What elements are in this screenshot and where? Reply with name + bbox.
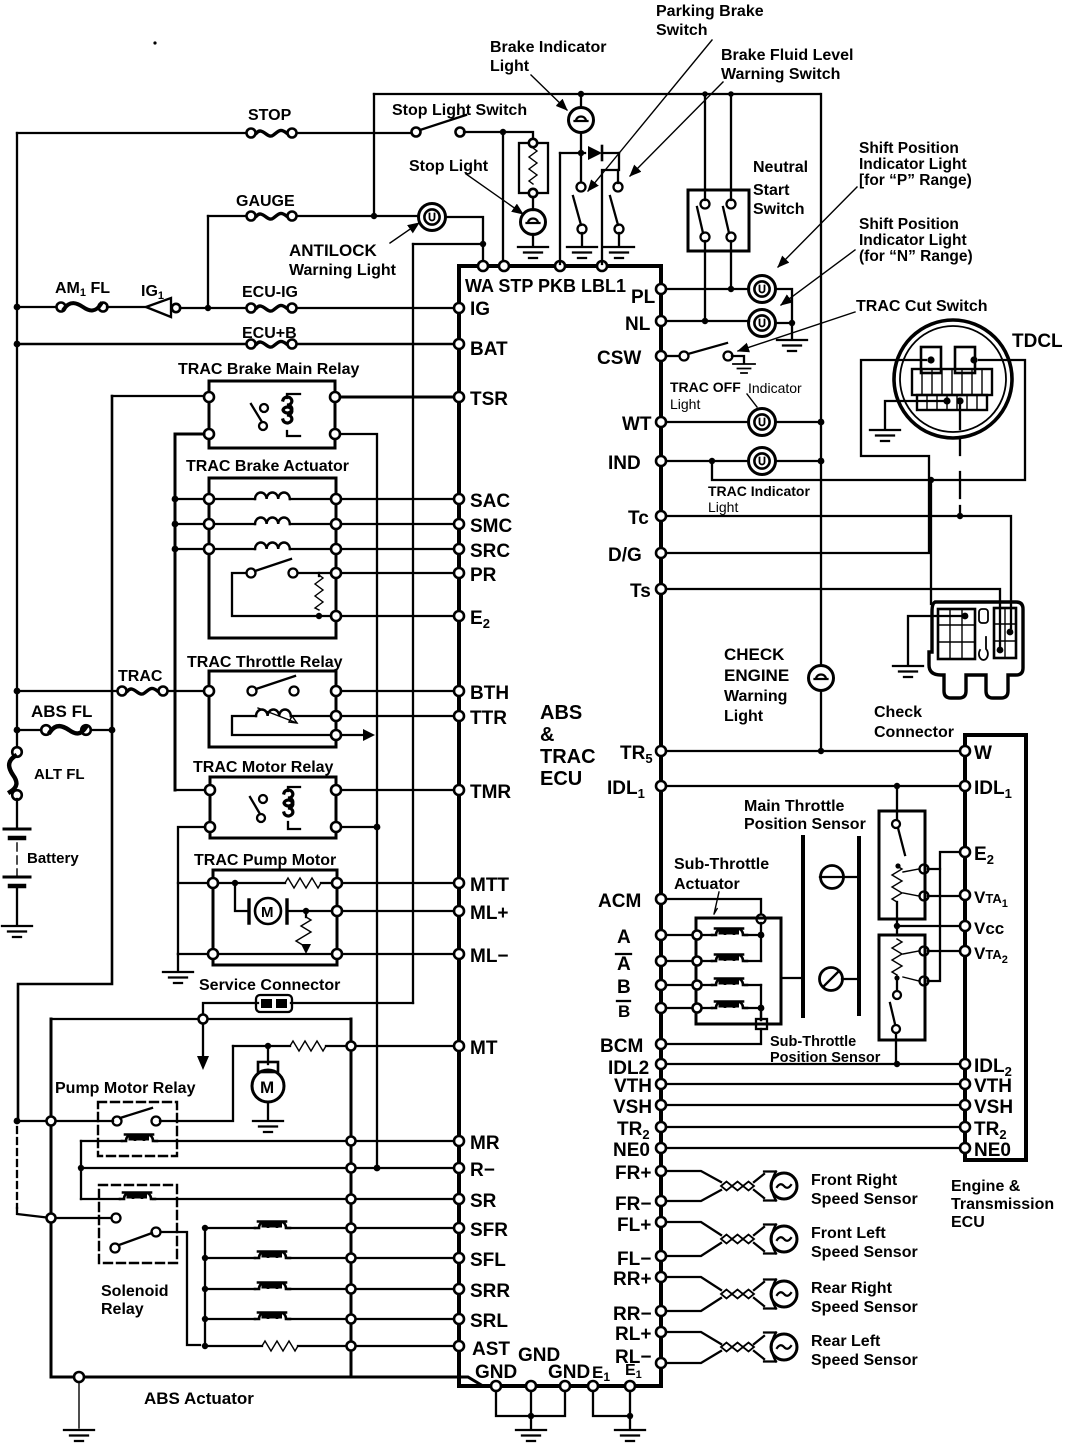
pin IDL1 — [656, 781, 666, 791]
wire: motor leads — [235, 883, 332, 911]
pin BAT — [454, 339, 464, 349]
svg-text:Light: Light — [490, 58, 530, 75]
svg-text:Speed Sensor: Speed Sensor — [811, 1352, 918, 1369]
svg-text:TRAC Pump Motor: TRAC Pump Motor — [194, 852, 336, 869]
svg-text:TRAC Cut Switch: TRAC Cut Switch — [856, 298, 988, 315]
pin Vcc — [960, 921, 970, 931]
svg-text:RL+: RL+ — [615, 1324, 651, 1345]
pin SRC — [454, 544, 464, 554]
pin FL- — [656, 1251, 666, 1261]
pin NE0 — [656, 1143, 666, 1153]
screw: sub idle adjust symbol — [820, 968, 843, 991]
wire: ML- row — [178, 953, 213, 955]
svg-text:Front Right: Front Right — [811, 1172, 898, 1189]
ground: stop light ground — [532, 234, 534, 246]
pin SAC — [454, 494, 464, 504]
wire: IDL1 row — [666, 785, 960, 787]
svg-text:CSW: CSW — [597, 348, 641, 369]
svg-text:M: M — [261, 904, 274, 921]
wire: Vcc row — [896, 919, 898, 935]
node: WA jog junction — [480, 241, 486, 247]
solenoid SRC — [175, 548, 331, 550]
bus: solenoid coil feed bus — [204, 1228, 206, 1346]
wire: TR5 / W row — [666, 750, 960, 752]
svg-text:Speed Sensor: Speed Sensor — [811, 1191, 918, 1208]
svg-text:BCM: BCM — [600, 1036, 643, 1057]
svg-text:CHECK: CHECK — [724, 645, 785, 664]
svg-text:WT: WT — [622, 414, 652, 435]
wire: warning light to WA pin — [446, 217, 483, 264]
wire: STOP circuit feed — [17, 132, 416, 134]
svg-text:NL: NL — [625, 314, 651, 335]
fuse ECU+B — [247, 340, 297, 349]
pin A — [656, 930, 666, 940]
resistor: stop light resistor block — [519, 143, 548, 193]
svg-text:ABS Actuator: ABS Actuator — [144, 1389, 254, 1408]
wire: motor relay output to down-feed — [341, 826, 377, 828]
svg-text:SFL: SFL — [470, 1250, 506, 1271]
pin TSR — [454, 392, 464, 402]
svg-text:ENGINE: ENGINE — [724, 666, 789, 685]
pin NL — [656, 316, 666, 326]
svg-text:Warning: Warning — [724, 688, 787, 705]
pin ACM — [656, 894, 666, 904]
pin TR2 (engine) — [960, 1122, 970, 1132]
wire: WA jog to long vertical — [413, 243, 483, 245]
wire: VTA2 row — [928, 950, 960, 952]
svg-text:FL−: FL− — [617, 1249, 651, 1270]
wire: main relay output down-feed — [340, 434, 377, 1168]
node: gauge drop junction on ECU-IG — [205, 305, 211, 311]
svg-text:IG: IG — [470, 299, 490, 320]
pin VTA1 — [960, 890, 970, 900]
sensor: Main Throttle Position Sensor — [879, 811, 925, 919]
pin TR5 — [656, 746, 666, 756]
sensor: Rear Right Speed Sensor — [666, 1277, 721, 1311]
svg-text:ECU: ECU — [540, 768, 582, 790]
ground: battery ground — [2, 926, 32, 937]
wire: NL row — [666, 320, 749, 322]
svg-text:Warning Switch: Warning Switch — [721, 66, 840, 83]
svg-text:MT: MT — [470, 1038, 498, 1059]
wire: MTT row to ECU — [342, 882, 459, 884]
svg-text:ABS: ABS — [540, 702, 582, 724]
ground: TDCL ground — [885, 401, 947, 428]
svg-text:ECU+B: ECU+B — [242, 325, 297, 342]
svg-text:Relay: Relay — [101, 1301, 144, 1318]
wire: TR2 row — [666, 1126, 960, 1128]
screw: idle adjust symbol — [821, 866, 844, 889]
wire: TRAC feed — [17, 690, 209, 692]
wire: R- row — [81, 1167, 459, 1169]
wire: check connector drop from TDCL loop — [928, 477, 934, 483]
wire: E1 grounding network — [593, 1391, 630, 1416]
lamp: CHECK ENGINE Warning Light — [809, 666, 834, 691]
svg-text:Pump Motor Relay: Pump Motor Relay — [55, 1080, 196, 1097]
wire: TMR row to ECU — [341, 789, 459, 791]
switch: actuator pressure switch PR — [247, 569, 256, 578]
svg-text:ML+: ML+ — [470, 903, 509, 924]
wire: left feed bus from STOP line down to ALT FL — [16, 133, 18, 752]
svg-text:BAT: BAT — [470, 339, 508, 360]
ground: ECU E1 ground — [615, 1430, 645, 1441]
ground: shift lights ground — [777, 340, 807, 351]
wire: VSH row — [666, 1104, 960, 1106]
svg-text:MR: MR — [470, 1133, 500, 1154]
svg-text:NE0: NE0 — [613, 1140, 650, 1161]
svg-text:TRAC Brake Actuator: TRAC Brake Actuator — [186, 458, 349, 475]
ground: parking brake ground — [567, 247, 597, 258]
sensor: Front Left Speed Sensor — [666, 1222, 721, 1256]
svg-text:VSH: VSH — [613, 1097, 652, 1118]
pin RL+ — [656, 1327, 666, 1337]
svg-text:Light: Light — [670, 396, 700, 412]
svg-text:Actuator: Actuator — [674, 876, 740, 893]
solenoid SRR — [202, 1286, 208, 1292]
pin WT — [656, 417, 666, 427]
fuse STOP — [247, 129, 297, 138]
ground: fluid switch ground — [604, 247, 634, 258]
resistor: actuator internal resistor — [315, 575, 323, 610]
svg-text:GAUGE: GAUGE — [236, 193, 295, 210]
svg-text:Light: Light — [724, 708, 764, 725]
pin VSH — [656, 1100, 666, 1110]
pin PL — [656, 284, 666, 294]
wire: PKB drop — [559, 153, 561, 264]
pin IDL2 — [656, 1059, 666, 1069]
ground: pump motor ground — [253, 1121, 283, 1132]
svg-text:GND: GND — [475, 1362, 517, 1383]
svg-text:Switch: Switch — [656, 22, 708, 39]
svg-text:Solenoid: Solenoid — [101, 1283, 169, 1300]
wire: PL row — [666, 288, 749, 290]
pin RR- — [656, 1306, 666, 1316]
switch: IG1 ignition — [107, 306, 146, 308]
pin FR- — [656, 1196, 666, 1206]
svg-text:TSR: TSR — [470, 389, 508, 410]
wire: ECU+B circuit — [14, 341, 21, 348]
lamp: Stop Light — [532, 197, 534, 210]
wire: ML+ row to ECU — [342, 910, 459, 912]
wire: neutral switch to NL row — [704, 241, 706, 321]
wire: E2 jog — [928, 852, 960, 869]
wire: pump relay switch to motor — [160, 1046, 233, 1121]
svg-text:Indicator Light: Indicator Light — [859, 232, 967, 249]
wire: Tc row — [666, 516, 1011, 628]
pin W — [960, 746, 970, 756]
svg-text:PR: PR — [470, 565, 497, 586]
fuse ECU-IG — [247, 304, 297, 313]
pin SR — [454, 1194, 464, 1204]
wire: TDCL Tc pin drop (dashed) — [959, 403, 961, 516]
svg-text:R−: R− — [470, 1160, 495, 1181]
svg-text:ECU-IG: ECU-IG — [242, 284, 298, 301]
pin R- — [454, 1163, 464, 1173]
pin Tc — [656, 511, 666, 521]
pin VTA2 — [960, 946, 970, 956]
resistor: motor shunt resistor — [303, 908, 309, 914]
svg-text:SR: SR — [470, 1191, 497, 1212]
wire: TTR row to ECU — [341, 715, 459, 717]
pin B — [656, 980, 666, 990]
wire: STP drop to ECU — [502, 132, 504, 264]
svg-text:Start: Start — [753, 182, 790, 199]
pin STP — [499, 261, 509, 271]
svg-text:SRC: SRC — [470, 541, 510, 562]
svg-text:TRAC: TRAC — [540, 746, 596, 768]
pin NE0 (engine) — [960, 1143, 970, 1153]
pin E2 — [454, 611, 464, 621]
pin PKB — [555, 261, 565, 271]
svg-text:A: A — [617, 954, 631, 975]
wire: relay coil drop bus — [80, 1141, 82, 1199]
pin RL- — [656, 1358, 666, 1368]
solenoid SMC — [175, 523, 331, 525]
sensor: Sub-Throttle Position Sensor — [879, 935, 925, 1040]
speck — [153, 41, 156, 44]
lamp: ANTILOCK Warning Light — [419, 204, 446, 231]
wire: TSR output to ECU — [340, 396, 459, 399]
svg-text:STOP: STOP — [248, 107, 292, 124]
fuse AM1 FL — [14, 304, 21, 311]
coil A — [666, 934, 712, 936]
wire: ABS FL drop to pump/solenoid relays — [18, 396, 112, 1121]
wire: NE0 row — [666, 1147, 960, 1149]
wire: switch return loop — [232, 573, 331, 616]
svg-text:TRAC Throttle Relay: TRAC Throttle Relay — [187, 654, 343, 671]
pin FR+ — [656, 1166, 666, 1176]
svg-text:Parking Brake: Parking Brake — [656, 3, 764, 20]
sensor: Front Right Speed Sensor — [666, 1171, 721, 1201]
pin LB — [597, 261, 607, 271]
wire: shift lights common ground — [776, 289, 792, 338]
svg-text:ALT FL: ALT FL — [34, 766, 85, 783]
lamp: Shift Position Indicator Light (P) — [749, 276, 776, 303]
wire: GND grounding network — [496, 1391, 565, 1416]
wire: solenoid relay switch feed (dashed drop) — [16, 1127, 18, 1208]
coil: throttle relay coil — [256, 710, 291, 717]
solenoid SFL — [202, 1255, 208, 1261]
node: SMC bus junction — [172, 521, 179, 528]
svg-text:Service Connector: Service Connector — [199, 977, 340, 994]
wire: MT row — [233, 1045, 290, 1047]
svg-text:Brake Fluid Level: Brake Fluid Level — [721, 47, 854, 64]
pin IG — [454, 303, 464, 313]
bottom pins GND GND GND E1 E1 — [491, 1381, 501, 1391]
svg-text:ACM: ACM — [598, 891, 641, 912]
svg-text:FR−: FR− — [615, 1194, 651, 1215]
svg-text:Transmission: Transmission — [951, 1196, 1054, 1213]
svg-text:VTH: VTH — [974, 1076, 1012, 1097]
wire: motor relay ground-side feed — [178, 827, 205, 954]
svg-text:TRAC Brake Main Relay: TRAC Brake Main Relay — [178, 361, 359, 378]
node: TRAC fuse junction — [14, 688, 21, 695]
pin PR — [454, 568, 464, 578]
svg-text:W: W — [974, 743, 992, 764]
svg-text:SRL: SRL — [470, 1311, 508, 1332]
arrow: test feed into pump relay — [202, 1024, 204, 1058]
svg-text:ML−: ML− — [470, 946, 509, 967]
pin CSW — [656, 351, 666, 361]
pin TTR — [454, 711, 464, 721]
wire: long vertical to service connector — [412, 244, 414, 1003]
svg-text:Warning Light: Warning Light — [289, 262, 397, 279]
resistor: pump motor resistor — [285, 878, 321, 888]
svg-text:(for “N” Range): (for “N” Range) — [859, 248, 973, 265]
svg-text:FR+: FR+ — [615, 1163, 651, 1184]
svg-text:Speed Sensor: Speed Sensor — [811, 1299, 918, 1316]
wire: connector interface bars — [801, 837, 805, 1016]
pin AST — [454, 1341, 464, 1351]
svg-text:RR+: RR+ — [613, 1269, 652, 1290]
pin: service connector test pin — [199, 1015, 208, 1024]
pin WA — [478, 261, 488, 271]
motor: ABS pump motor M — [267, 1046, 269, 1064]
svg-text:VTH: VTH — [614, 1076, 652, 1097]
wire: pump relay switch feed — [17, 1120, 113, 1122]
svg-text:Stop Light Switch: Stop Light Switch — [392, 102, 527, 119]
wire: Ts row — [666, 589, 1000, 648]
svg-text:TRAC Indicator: TRAC Indicator — [708, 483, 810, 499]
solenoid SAC — [175, 498, 331, 500]
wire: WT row — [666, 421, 748, 423]
svg-text:ABS FL: ABS FL — [31, 702, 92, 721]
svg-text:Vcc: Vcc — [974, 919, 1004, 938]
svg-text:M: M — [260, 1078, 274, 1097]
wire: VTH row — [666, 1083, 960, 1085]
switch: TRAC Cut Switch — [666, 355, 679, 357]
svg-text:TTR: TTR — [470, 708, 507, 729]
svg-text:SMC: SMC — [470, 516, 513, 537]
svg-text:NE0: NE0 — [974, 1140, 1011, 1161]
svg-text:Shift Position: Shift Position — [859, 216, 959, 233]
bus: actuator feed bus — [175, 434, 204, 790]
wire: E2 output row — [331, 611, 341, 621]
pin ML- — [454, 949, 464, 959]
svg-text:GND: GND — [548, 1362, 590, 1383]
pin MR — [454, 1136, 464, 1146]
wire: D/G row — [666, 360, 929, 553]
pin D/G — [656, 548, 666, 558]
svg-text:ECU: ECU — [951, 1214, 985, 1231]
pin RR+ — [656, 1272, 666, 1282]
pin BCM — [656, 1039, 666, 1049]
lamp: Brake Indicator Light — [578, 91, 584, 97]
svg-text:Rear Left: Rear Left — [811, 1333, 881, 1350]
svg-text:Light: Light — [708, 499, 738, 515]
node: STP drop junction — [500, 129, 506, 135]
wire: BTH row to ECU — [341, 690, 459, 692]
svg-text:ANTILOCK: ANTILOCK — [289, 241, 378, 260]
node: ABS FL junction — [14, 727, 21, 734]
svg-text:Front Left: Front Left — [811, 1225, 886, 1242]
pin IDL1 (engine) — [960, 781, 970, 791]
wire: BCM row — [756, 1019, 767, 1029]
pin BTH — [454, 686, 464, 696]
svg-text:B: B — [617, 977, 631, 998]
switch: Parking Brake Switch — [580, 157, 582, 182]
svg-text:Battery: Battery — [27, 850, 79, 867]
pin IND — [656, 456, 666, 466]
lamp: TRAC OFF Indicator Light — [749, 409, 776, 436]
svg-text:Neutral: Neutral — [753, 159, 808, 176]
wire: stop light switch output — [464, 132, 533, 143]
svg-text:[for “P” Range): [for “P” Range) — [859, 172, 972, 189]
node: SRC bus junction — [172, 546, 179, 553]
wire: TSR feed from ABS FL vertical — [112, 395, 209, 397]
pin VTH (engine) — [960, 1079, 970, 1089]
svg-text:Indicator Light: Indicator Light — [859, 156, 967, 173]
switch: solenoid relay contacts — [112, 1214, 121, 1223]
ground: cut switch ground — [733, 364, 755, 373]
svg-text:Tc: Tc — [628, 508, 649, 529]
node: R- junction — [78, 1165, 84, 1171]
svg-text:BTH: BTH — [470, 683, 509, 704]
svg-text:Check: Check — [874, 704, 922, 721]
pin VTH — [656, 1079, 666, 1089]
pin Abar — [656, 956, 666, 966]
actuator: Sub-Throttle Actuator box — [696, 918, 781, 1024]
pin Bbar — [656, 1003, 666, 1013]
svg-text:Sub-Throttle: Sub-Throttle — [770, 1034, 856, 1050]
svg-text:TRAC Motor Relay: TRAC Motor Relay — [193, 759, 334, 776]
coil Abar — [666, 960, 712, 962]
coil Bbar — [666, 1007, 712, 1009]
wire: LB drop and fluid switch feed — [602, 153, 619, 264]
pin VSH (engine) — [960, 1100, 970, 1110]
svg-text:TRAC: TRAC — [118, 668, 163, 685]
solenoid SRL — [202, 1316, 208, 1322]
ECU: ABS & TRAC ECU box — [459, 266, 661, 1386]
solenoid SFR — [202, 1225, 208, 1231]
pin MT — [454, 1041, 464, 1051]
lamp: Shift Position Indicator Light (N) — [749, 310, 776, 337]
svg-text:Speed Sensor: Speed Sensor — [811, 1244, 918, 1261]
svg-text:&: & — [540, 724, 554, 746]
svg-text:Indicator: Indicator — [748, 380, 802, 396]
svg-text:FL+: FL+ — [617, 1215, 651, 1236]
resistor: pump motor feed resistor — [290, 1041, 326, 1051]
svg-text:SFR: SFR — [470, 1220, 508, 1241]
diode: brake indicator diode — [560, 152, 619, 154]
svg-text:Engine &: Engine & — [951, 1178, 1021, 1195]
svg-text:Brake Indicator: Brake Indicator — [490, 39, 606, 56]
svg-text:AST: AST — [472, 1339, 510, 1360]
pin IDL2 (engine) — [960, 1059, 970, 1069]
pin SRL — [454, 1314, 464, 1324]
wire: neutral switch to PL row — [730, 241, 732, 289]
pin SFR — [454, 1223, 464, 1233]
svg-text:TMR: TMR — [470, 782, 511, 803]
sensor: Rear Left Speed Sensor — [666, 1332, 721, 1363]
pin Ts — [656, 584, 666, 594]
fuse TRAC — [118, 687, 168, 696]
ground: ECU GND ground — [516, 1430, 546, 1441]
svg-text:Switch: Switch — [753, 201, 805, 218]
relay: Solenoid Relay (dashed) — [99, 1185, 177, 1263]
box: ABS Actuator enclosure — [51, 1018, 351, 1020]
pin SRR — [454, 1284, 464, 1294]
lamp: TRAC Indicator Light — [749, 448, 776, 475]
svg-text:TDCL: TDCL — [1012, 331, 1063, 352]
pin MTT — [454, 878, 464, 888]
battery: Battery — [16, 799, 18, 829]
svg-text:Rear Right: Rear Right — [811, 1280, 893, 1297]
svg-text:RL−: RL− — [615, 1347, 651, 1368]
fuse GAUGE — [247, 212, 297, 221]
svg-text:SAC: SAC — [470, 491, 510, 512]
svg-text:IND: IND — [608, 453, 641, 474]
